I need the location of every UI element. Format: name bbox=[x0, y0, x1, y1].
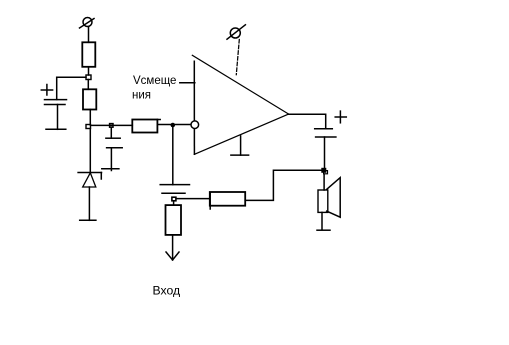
node A (junction dot) bbox=[171, 123, 176, 128]
capacitor C2 bbox=[106, 138, 122, 148]
ground bar of VD1 bbox=[80, 219, 96, 221]
wire J3 to C2 bbox=[110, 127, 112, 138]
svg-text:Вход: Вход bbox=[153, 283, 181, 297]
input arrow bbox=[166, 252, 179, 260]
wire R3 to inverting input bbox=[157, 124, 191, 126]
resistor R2 bbox=[83, 89, 96, 109]
capacitor C3 bbox=[315, 129, 336, 137]
wire J4 to speaker bbox=[323, 174, 325, 190]
wire R5 to node J5 bbox=[176, 198, 209, 200]
label Vсмещения bbox=[132, 75, 176, 102]
wire node A to C4 bbox=[172, 127, 174, 185]
svg-text:ния: ния bbox=[132, 90, 151, 102]
wire J2 to diode VD1 bbox=[89, 129, 91, 173]
svg-text:Vсмеще: Vсмеще bbox=[133, 75, 176, 87]
inverting input circle of U1 bbox=[191, 121, 199, 129]
wire non-inverting input bbox=[180, 82, 195, 84]
capacitor C1 bbox=[45, 100, 67, 105]
wire VD1 to ground bbox=[88, 187, 90, 220]
wire C3 to node J4 bbox=[324, 137, 326, 168]
ground bar of speaker bbox=[317, 229, 330, 231]
capacitor C4 bbox=[160, 185, 189, 194]
power terminal X2 bbox=[227, 25, 245, 39]
wire C1 to ground bar bbox=[57, 105, 59, 130]
wire X1 to R1 bbox=[88, 27, 90, 43]
ground bar of C1 bbox=[46, 128, 66, 130]
power terminal X1 bbox=[80, 18, 95, 29]
wire R4 to input arrow bbox=[172, 235, 174, 260]
node J3 bbox=[110, 124, 113, 128]
resistor R4 bbox=[166, 205, 182, 235]
capacitor C3 plus sign bbox=[335, 111, 346, 123]
op-amp U1 bbox=[192, 55, 288, 154]
ground bar of C2 bbox=[102, 168, 119, 170]
wire C2 to ground bar bbox=[110, 148, 112, 171]
node J2 bbox=[86, 125, 91, 129]
resistor R3 bbox=[132, 120, 160, 133]
capacitor C1 plus sign bbox=[41, 85, 52, 96]
wire J2 to R3 bbox=[91, 124, 133, 126]
wire R1 to node J1 bbox=[88, 67, 90, 75]
wire J1 to R2 bbox=[87, 80, 89, 90]
wire J5 to R4 bbox=[173, 201, 175, 205]
wire speaker to ground bbox=[321, 212, 323, 229]
diode VD1 (zener) bbox=[78, 173, 101, 188]
node J4 bbox=[322, 168, 328, 174]
wire U1 output to C3 bbox=[289, 114, 326, 129]
wire R2 to node J2 bbox=[89, 110, 91, 125]
feedback wire J4 to R5 bbox=[245, 170, 322, 200]
resistor R1 bbox=[82, 42, 95, 67]
resistor R5 bbox=[210, 192, 245, 209]
wire J1 to C1 bbox=[57, 77, 86, 99]
wire X2 to U1 bbox=[236, 40, 239, 75]
node J1 bbox=[86, 75, 91, 80]
ground of U1 bbox=[231, 136, 249, 155]
speaker BA1 bbox=[318, 178, 340, 218]
node J5 bbox=[172, 197, 176, 201]
